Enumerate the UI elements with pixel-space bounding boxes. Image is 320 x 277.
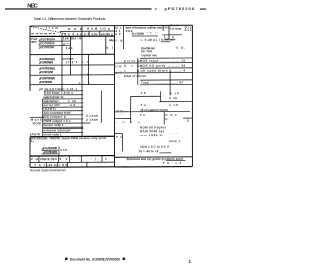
svg-text:T A =: T A = [34, 163, 45, 167]
svg-text:num.: num. [31, 40, 37, 44]
flash underlines [42, 149, 59, 151]
svg-text:==: == [82, 60, 89, 64]
svg-text:buzzer outp 1: buzzer outp 1 [44, 123, 64, 127]
svg-text:· |: · | [81, 163, 87, 167]
svg-text:··· — ··— ··: ··· — ··— ·· [132, 31, 158, 35]
svg-text:ush.: ush. [61, 148, 69, 152]
box B area [115, 91, 192, 151]
svg-text:CMOS I/O ports .........: 43: CMOS I/O ports .........: 43 [137, 64, 185, 68]
row separators [39, 40, 70, 42]
svg-text:use: use [185, 28, 192, 32]
svg-text:1: 1 [189, 259, 192, 264]
svg-text:- |: - | [90, 157, 96, 161]
svg-text:Remark Under development: Remark Under development [30, 168, 66, 172]
svg-text:2 chan: 2 chan [86, 118, 98, 122]
underlines right table [166, 160, 186, 162]
svg-text:5.5V: 5.5V [92, 32, 98, 36]
svg-text:A |: A | [106, 46, 113, 50]
svg-text:µPD780206: µPD780206 [39, 45, 54, 49]
header bottom strong (left) [30, 35, 115, 37]
svg-text:VDD = 2.7 to 5.5 V: VDD = 2.7 to 5.5 V [140, 145, 169, 149]
svg-text:µPD780208: µPD780208 [39, 80, 52, 84]
footer [65, 257, 125, 261]
svg-text:—: — [67, 41, 70, 45]
svg-text:prt: prt [116, 70, 122, 74]
dashes in header cell [31, 33, 55, 35]
left edge (upper) [29, 26, 31, 91]
svg-text:16: 16 [141, 91, 146, 95]
svg-text:—— 1024 b.: —— 1024 b. [140, 133, 163, 137]
svg-text:- — = —: - — = — [116, 120, 140, 124]
svg-text:Item: Item [46, 26, 58, 30]
svg-text:crystal osc.: crystal osc. [141, 53, 158, 57]
nested rows [115, 58, 192, 96]
svg-text:°C: °C [107, 32, 114, 36]
svg-text:U: U [165, 117, 167, 121]
svg-text:-40 to: -40 to [47, 163, 57, 167]
center boundary vertical [114, 26, 116, 167]
svg-text:— —: — — [116, 108, 123, 112]
svg-text:Ps: Ps [116, 135, 122, 139]
svg-text:C=: C= [124, 64, 133, 68]
svg-text:µPD78F0209: µPD78F0209 [43, 150, 57, 154]
svg-text:u2: u2 [70, 103, 75, 107]
svg-text:··: ·· [101, 38, 105, 42]
svg-text:=·=: =·= [79, 81, 90, 85]
svg-text:Table 2-1. Differences betwee: Table 2-1. Differences between Subseries… [34, 17, 106, 21]
svg-text:1 ch: 1 ch [169, 103, 178, 107]
svg-text:T. E.: T. E. [176, 46, 185, 50]
svg-text:no: no [171, 113, 177, 117]
svg-text:Document No. U10260EJ2V0DS00: Document No. U10260EJ2V0DS00 [70, 257, 120, 261]
svg-text:I/O: I/O [116, 64, 123, 68]
svg-text:IB: IB [78, 36, 83, 40]
diagonal in header cell [31, 26, 67, 34]
svg-text:2 ch: 2 ch [169, 96, 177, 100]
svg-text:Nt: Nt [165, 25, 169, 29]
svg-text:····: ···· [116, 152, 125, 156]
right edge [191, 25, 193, 166]
svg-text:Total ........................: Total .......................... 57 [141, 80, 183, 84]
svg-text:=: = [124, 69, 126, 73]
svg-text:Tu: Tu [141, 103, 146, 107]
svg-text:Tu: Tu [140, 113, 145, 117]
svg-text:Fl.: Fl. [31, 139, 36, 143]
sub divider [123, 26, 125, 49]
header rule [5, 8, 152, 9]
svg-text:64p: 64p [109, 38, 114, 42]
svg-text:a2: a2 [116, 32, 121, 36]
svg-text:N-ch open drain ........: 4: N-ch open drain ........: 4 [137, 68, 185, 72]
svg-text:ROM: ROM [33, 121, 41, 125]
svg-text:2: 2 [187, 119, 189, 123]
svg-text:24K: 24K [66, 46, 74, 50]
continuous top edge [30, 24, 192, 27]
svg-text:+85: +85 [59, 163, 67, 167]
svg-text:total of above: total of above [124, 74, 146, 78]
svg-text:1: 1 [105, 157, 107, 161]
svg-text:— 0.48 µs / 0.95 µs: — 0.48 µs / 0.95 µs [140, 38, 174, 42]
inner divider [105, 36, 107, 54]
small lines right [162, 34, 182, 36]
svg-text:µPD78P0208: µPD78P0208 [39, 70, 53, 74]
header mid line (left) [60, 30, 115, 32]
svg-text:RAM: RAM [87, 27, 98, 31]
svg-text:··: ·· [98, 156, 103, 160]
svg-text:note 1: note 1 [169, 139, 180, 143]
svg-text:µPD780208: µPD780208 [165, 6, 195, 11]
dense band [30, 91, 102, 137]
svg-text:▼ u. · — 4: ▼ u. · — 4 [162, 161, 181, 165]
column divider x83 [81, 26, 83, 137]
svg-text:µPD780206(A): µPD780206(A) [39, 60, 53, 64]
svg-text:···: ··· [169, 132, 177, 136]
bottom band [30, 155, 115, 157]
svg-text:.: . [118, 38, 119, 42]
svg-text:CMOS input ..............: 10: CMOS input ..............: 10 [137, 59, 185, 63]
svg-text:µPD780206, 780208: mask ROM v: µPD780206, 780208: mask ROM version only… [31, 136, 107, 140]
svg-text:TA = -40 to +8: TA = -40 to +8 [138, 149, 158, 153]
left edge (lower) [29, 137, 31, 168]
svg-text:·: · [85, 36, 86, 40]
svg-text:5 V: 5 V [60, 157, 68, 161]
svg-text:ports: ports [124, 59, 135, 63]
part col divider [61, 36, 63, 90]
svg-text:VDD=2.7/5.5: VDD=2.7/5.5 [40, 157, 57, 161]
svg-text:16K 384: 16K 384 [63, 36, 76, 40]
svg-text:ROM: ROM [68, 27, 83, 31]
svg-text:Pw: Pw [31, 157, 39, 161]
svg-text:40-85: 40-85 [101, 32, 110, 36]
svg-text:I/O p: I/O p [100, 27, 110, 31]
svg-text:1 ch: 1 ch [170, 91, 179, 95]
svg-text:- ·: - · [71, 157, 80, 161]
svg-text:(2-ch capture input): (2-ch capture input) [141, 108, 168, 112]
svg-text:17.2:1: 17.2:1 [65, 60, 77, 64]
header row2 verticals [88, 31, 90, 36]
svg-text:····: ···· [116, 112, 124, 116]
svg-text:f.u. mue: f.u. mue [170, 27, 181, 31]
bottom band verticals [39, 156, 102, 168]
